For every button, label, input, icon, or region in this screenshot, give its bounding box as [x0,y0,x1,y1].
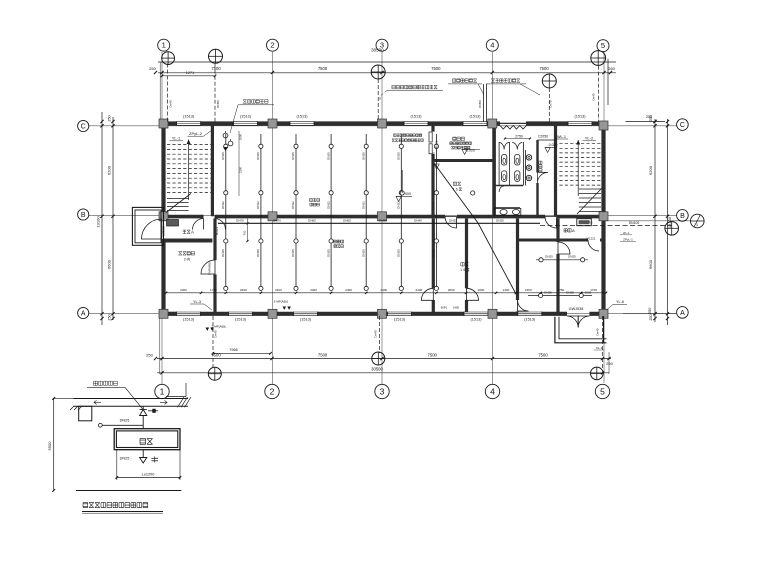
urinals [525,150,527,186]
svg-text:5500: 5500 [47,441,52,451]
axis bubble 3 bottom [375,384,389,398]
svg-text:250: 250 [646,115,652,119]
svg-text:1: 1 [460,268,462,272]
svg-text:60P1: 60P1 [441,306,448,310]
svg-text:250: 250 [648,308,652,314]
room label water meter [453,137,456,140]
stair right break diagonal [577,188,602,214]
svg-text:2-MF(AB)L: 2-MF(AB)L [212,325,227,329]
svg-text:DN40: DN40 [414,219,422,223]
svg-text:(1513): (1513) [183,317,195,321]
room label control room [179,252,182,255]
extra sprinkler heads right rooms [400,191,404,195]
svg-text:7500: 7500 [539,66,549,71]
svg-text:2400: 2400 [310,288,317,292]
svg-text:7500: 7500 [538,353,548,358]
svg-text:ZPyL-1: ZPyL-1 [623,237,633,241]
branch spacing dimension chain [166,292,606,294]
svg-text:C: C [680,122,685,129]
stall door arcs [499,143,509,150]
riser pipe x=547 [548,88,550,122]
wall exterior top [161,121,177,125]
stair left dashed treads [167,144,211,146]
svg-text:C2050: C2050 [538,134,548,138]
double door M1521 leaves [429,132,432,142]
svg-text:(1513): (1513) [300,317,312,321]
window top wall [177,121,201,123]
fire main dashed to hydrant riser [540,225,672,227]
sprinkler branch pipes [225,134,227,289]
sprinkler main distribution pipe [218,222,540,224]
svg-text:6200: 6200 [107,165,112,175]
svg-text:7500: 7500 [428,353,438,358]
svg-text:7966: 7966 [229,348,237,352]
detail marks right of pendent [152,457,159,459]
wall lobby y=240 right [518,239,589,242]
top dimension chain line [158,72,616,74]
svg-text:DN32: DN32 [291,201,295,209]
riser pipe bottom grid1 [212,316,214,370]
window bottom wall [294,311,318,313]
svg-text:XL-1: XL-1 [596,346,603,350]
axis bubble 1 bottom [155,384,169,398]
svg-text:(1513): (1513) [471,317,483,321]
svg-text:DN25: DN25 [361,152,365,160]
annex bay on left wall [132,207,163,245]
toilet partition y=185.5 [494,185,523,187]
svg-text:1271: 1271 [186,71,194,75]
svg-text:M1221: M1221 [586,237,596,241]
svg-text:DN32: DN32 [361,201,365,209]
svg-text:3100: 3100 [239,166,243,173]
svg-text:2400: 2400 [345,288,352,292]
wall interior x=466 lower [465,219,468,289]
detail side symbol [148,410,158,412]
top dimension line overall [158,61,616,63]
svg-text:2400: 2400 [240,288,247,292]
grid line axis 2 [272,52,274,384]
svg-text:DN25: DN25 [397,152,401,160]
wall stair left x=555.5 [554,126,557,217]
svg-text:750: 750 [243,230,247,235]
svg-text:DN25: DN25 [221,249,225,257]
toilet labels [539,161,542,172]
svg-text:2000: 2000 [478,288,485,292]
svg-text:YL-6: YL-6 [616,300,624,304]
end test water device symbols [223,133,228,138]
wall toilet mid x=537.5 [536,140,538,172]
svg-text:5: 5 [601,41,605,50]
room label store upper [453,182,456,185]
svg-text:DN25: DN25 [545,255,553,259]
room label hall 1 [310,199,313,202]
svg-text:A: A [680,310,685,317]
detail upright sprinkler symbol [142,406,144,409]
svg-text:2750: 2750 [558,288,565,292]
svg-text:7500: 7500 [318,353,328,358]
svg-text:250: 250 [149,66,156,71]
svg-text:YL-3: YL-3 [193,300,201,304]
svg-text:2-MF(AB)1: 2-MF(AB)1 [274,300,289,304]
sub dimension 1271 [162,75,215,77]
hydrant cabinet left section [167,220,179,227]
label end test device [243,100,246,104]
svg-text:Dn40: Dn40 [214,330,218,338]
riser pipe bottom right [602,316,604,369]
svg-text:7500: 7500 [211,66,221,71]
window top wall [404,121,428,123]
axis bubble 2 top [267,39,279,51]
small dim chain x=239 [238,131,240,196]
svg-text:DN25: DN25 [568,255,576,259]
riser pipe right corner [598,66,600,122]
svg-text:B: B [81,212,86,219]
toilet lobby top line [538,139,556,141]
svg-text:1400: 1400 [503,288,510,292]
right dimension line inner [654,119,656,322]
sprinkler line right room upper [536,259,588,261]
svg-text:2: 2 [270,41,274,50]
svg-text:-0.020: -0.020 [548,143,558,147]
svg-text:WL-1: WL-1 [557,135,566,139]
small note text block 1 [394,134,397,137]
sprinkler line right room lower [528,295,592,297]
svg-text:30500: 30500 [371,366,383,371]
door arc x=517 room [518,300,529,311]
axis bubble A left [78,307,89,318]
axis bubble 3 top [376,39,388,51]
window bottom wall [464,311,488,313]
door arc room left wall [201,260,215,274]
svg-text:M1521: M1521 [435,140,439,149]
small note text block 2 [450,142,453,145]
grid line axis B [89,215,677,217]
svg-text:De40: De40 [592,93,596,101]
svg-text:LM1121: LM1121 [162,226,166,236]
crossed circle riser marker [372,352,385,365]
right dimension line outer [667,119,669,325]
riser pipes near grid4 [483,84,485,122]
wall water meter room bottom y=160.5 [433,159,494,162]
svg-text:5: 5 [600,386,605,396]
svg-text:YL-2: YL-2 [585,136,594,141]
svg-text:6600: 6600 [107,259,112,269]
window bottom wall [518,311,542,313]
svg-text:2400: 2400 [180,288,187,292]
stair right center line with arrow [577,140,579,196]
wall axis B corridor [161,215,204,219]
svg-text:1700: 1700 [590,288,597,292]
svg-text:250: 250 [108,314,112,320]
svg-text:2750: 2750 [515,134,523,138]
svg-text:DN25: DN25 [256,249,260,257]
label pressurized water pipe [491,79,494,82]
left dimension line inner [112,117,114,320]
crossed circle riser marker [162,52,175,65]
axis bubble 5 bottom [595,384,609,398]
svg-text:DN65: DN65 [308,219,316,223]
door arc x=466 room [467,288,479,300]
svg-text:M1121: M1121 [215,226,219,235]
axis bubble 1 top [158,39,170,51]
wall interior x=433 lower [432,219,435,289]
detail title [83,503,88,508]
svg-text:DN25: DN25 [326,249,330,257]
svg-text:(1513): (1513) [240,115,252,119]
svg-text:4: 4 [490,386,495,396]
wall interior x=517.5 lower [516,219,519,301]
svg-text:C: C [81,123,86,130]
stair left break diagonal [166,194,191,213]
svg-text:Dn70: Dn70 [549,100,553,108]
svg-text:(1513): (1513) [183,115,195,119]
grid line axis C [89,125,677,127]
svg-text:(1513): (1513) [297,115,309,119]
svg-text:7500: 7500 [318,66,328,71]
svg-text:2400: 2400 [416,288,423,292]
svg-text:1650: 1650 [525,288,532,292]
detail supply pipe with elbow [98,423,102,427]
axis bubble 2 bottom [265,384,279,398]
door arc lobby wall [558,242,570,254]
riser pipes above top wall left [167,64,169,122]
svg-text:YL-1: YL-1 [172,136,181,141]
crossed circle riser marker [591,367,604,380]
axis bubble C left [78,120,89,131]
room label duty [564,229,567,232]
svg-text:DN25: DN25 [221,152,225,160]
diagonal pipe run [434,163,516,294]
hydrant cabinet [577,219,592,226]
svg-text:DN25: DN25 [496,219,504,223]
svg-text:DN70: DN70 [236,219,244,223]
crossed circle riser marker [371,65,385,79]
stair left lower flight solid treads [167,198,189,200]
svg-text:2: 2 [270,386,275,396]
svg-text:13100: 13100 [667,216,672,228]
grid line axis A [89,313,677,315]
svg-text:2000: 2000 [448,288,455,292]
grid line axis 4 [491,52,493,384]
room label hall 2 [334,240,337,243]
door arc B wall mid [445,217,457,229]
svg-text:1450: 1450 [453,306,460,310]
crossed circle riser marker [209,49,223,63]
svg-text:A: A [572,228,575,233]
svg-text:DN32: DN32 [397,201,401,209]
svg-text:B: B [680,213,685,220]
svg-text:DN25: DN25 [291,152,295,160]
svg-text:2400: 2400 [380,288,387,292]
detail leader frame near axis 1 [166,396,186,398]
svg-text:1: 1 [160,386,165,396]
svg-text:DN25: DN25 [256,152,260,160]
door arc lobby bottom [588,240,599,251]
entrance double door arcs [567,316,578,328]
detail duct box [114,429,180,450]
svg-text:DN32: DN32 [256,201,260,209]
porch outline bottom right [555,317,607,343]
wall stairwell right x=212 [211,126,214,217]
sub dimension 7966 [213,352,271,354]
axis bubble B left [78,209,89,220]
crossed circle riser marker [208,367,221,380]
window top wall [234,121,258,123]
wall rooms left x=215 lower [213,219,216,261]
svg-text:DN25: DN25 [432,249,436,257]
label lab water treatment connection [392,85,395,88]
svg-text:2-MF/AB16: 2-MF/AB16 [208,260,212,275]
svg-text:DN25: DN25 [566,290,574,294]
svg-text:DN65: DN65 [343,219,351,223]
window bottom wall [229,311,253,313]
svg-text:DN25: DN25 [120,418,130,422]
window top wall [463,121,487,123]
svg-text:2400: 2400 [275,288,282,292]
svg-text:Dn40: Dn40 [374,330,378,338]
svg-text:(1513): (1513) [235,317,247,321]
axis bubble 5 top [597,40,609,52]
detail dimension L1200 [116,450,118,480]
svg-text:DN25: DN25 [291,249,295,257]
room label vestibule [183,230,186,233]
detail ceiling slab [74,398,189,400]
label waste water pipe [452,79,455,82]
slashed circle marker right of B [691,214,705,228]
axis bubble 4 top [486,39,498,51]
riser pipe grid3 [377,79,379,122]
toilet counter y=207.5 [494,207,520,209]
svg-text:DN50: DN50 [379,219,387,223]
detail beam section box [79,406,92,421]
bottom overall dimension line [157,372,609,374]
svg-text:DN25: DN25 [397,249,401,257]
sprinkler heads grid [224,144,228,148]
wall exterior right [601,122,605,317]
svg-text:DN100: DN100 [629,221,640,225]
detail left dimension 5500 [53,398,55,490]
svg-text:6200: 6200 [648,165,653,175]
detail ground line [76,490,181,492]
door arc B wall right [545,217,557,229]
toilet stall partitions [498,142,500,186]
right C extension line [626,121,666,123]
svg-text:DN25: DN25 [326,152,330,160]
svg-text:DN32: DN32 [449,219,457,223]
svg-text:DN25: DN25 [544,290,552,294]
wall vestibule bottom y=240.5 [164,239,213,243]
crossed circle riser marker [591,51,606,66]
svg-text:DN25: DN25 [361,249,365,257]
svg-text:250: 250 [146,353,153,358]
svg-text:(1513): (1513) [470,115,482,119]
svg-text:3: 3 [380,386,385,396]
svg-text:1: 1 [162,41,166,50]
svg-text:250: 250 [606,361,613,366]
axis bubble C right [677,119,689,131]
svg-text:6: 6 [463,268,465,272]
grid line axis 5 [603,52,605,383]
door arc x=433 room [421,288,433,300]
svg-text:250: 250 [608,66,615,71]
grid line axis B extension lower [606,220,691,222]
svg-text:DN25: DN25 [432,152,436,160]
elevation mark toilet [545,148,550,153]
svg-text:6600: 6600 [648,259,653,269]
svg-text:1600: 1600 [239,133,243,140]
crossed circle riser marker [665,222,679,236]
door arc vestibule left [193,219,204,230]
stair right lower flight solid treads [579,188,601,190]
svg-text:2h-1: 2h-1 [623,231,629,235]
wall interior x=433 upper with door opening [431,126,434,132]
svg-text:DN32: DN32 [221,201,225,209]
right A extension line [623,313,676,315]
svg-text:DN32: DN32 [326,201,330,209]
svg-text:DN50: DN50 [216,100,220,108]
wall toilet left x=494 [493,126,496,217]
svg-text:ZPyL-2: ZPyL-2 [189,131,203,136]
detail label upright sprinkler [94,381,98,385]
wall exterior left [161,122,165,220]
svg-text:4: 4 [490,41,494,50]
svg-text:1700: 1700 [210,288,217,292]
axis bubble B right [677,210,689,222]
wall exterior bottom [161,312,177,316]
svg-text:(1513): (1513) [524,317,536,321]
svg-text:A: A [81,310,86,317]
svg-text:(1513): (1513) [411,115,423,119]
elevation mark hall [396,197,401,202]
svg-text:(1513): (1513) [575,115,587,119]
svg-text:A: A [191,230,194,235]
svg-text:7500: 7500 [431,66,441,71]
svg-text:DN70: DN70 [273,219,281,223]
svg-text:250: 250 [649,314,653,320]
detail pendent sprinkler below duct [142,450,144,458]
columns at grid intersections [159,119,168,128]
stair left center line with arrow [188,140,190,201]
room label store lower [461,263,464,266]
window bottom wall [388,311,412,313]
squat WC fixtures [502,155,507,165]
annex door arc [142,219,162,239]
svg-text:13100: 13100 [96,216,101,228]
grid line axis 1 [161,52,163,384]
svg-text:(1513): (1513) [394,317,406,321]
grid line axis 3 [381,51,383,384]
door arc vestibule right [215,219,226,230]
svg-text:6: 6 [456,188,458,192]
window top wall [568,121,592,123]
svg-text:DN32: DN32 [432,201,436,209]
svg-text:250: 250 [108,115,112,121]
toilet high window sawtooth [500,126,526,130]
svg-text:2-W: 2-W [184,258,191,262]
svg-text:De40: De40 [596,328,600,336]
axis bubble A right [677,307,689,319]
elevation mark water meter room [434,164,439,169]
window top wall [290,121,314,123]
crossed circle riser marker [542,74,556,88]
svg-text:GWJ538: GWJ538 [569,307,584,311]
stair right dashed treads [559,143,601,145]
svg-text:L≤1200: L≤1200 [142,472,155,476]
left dimension line outer [101,112,103,325]
toilet lobby door arc [537,172,548,183]
small dim 700 near branch [247,219,249,242]
svg-text:DN25: DN25 [120,457,130,461]
